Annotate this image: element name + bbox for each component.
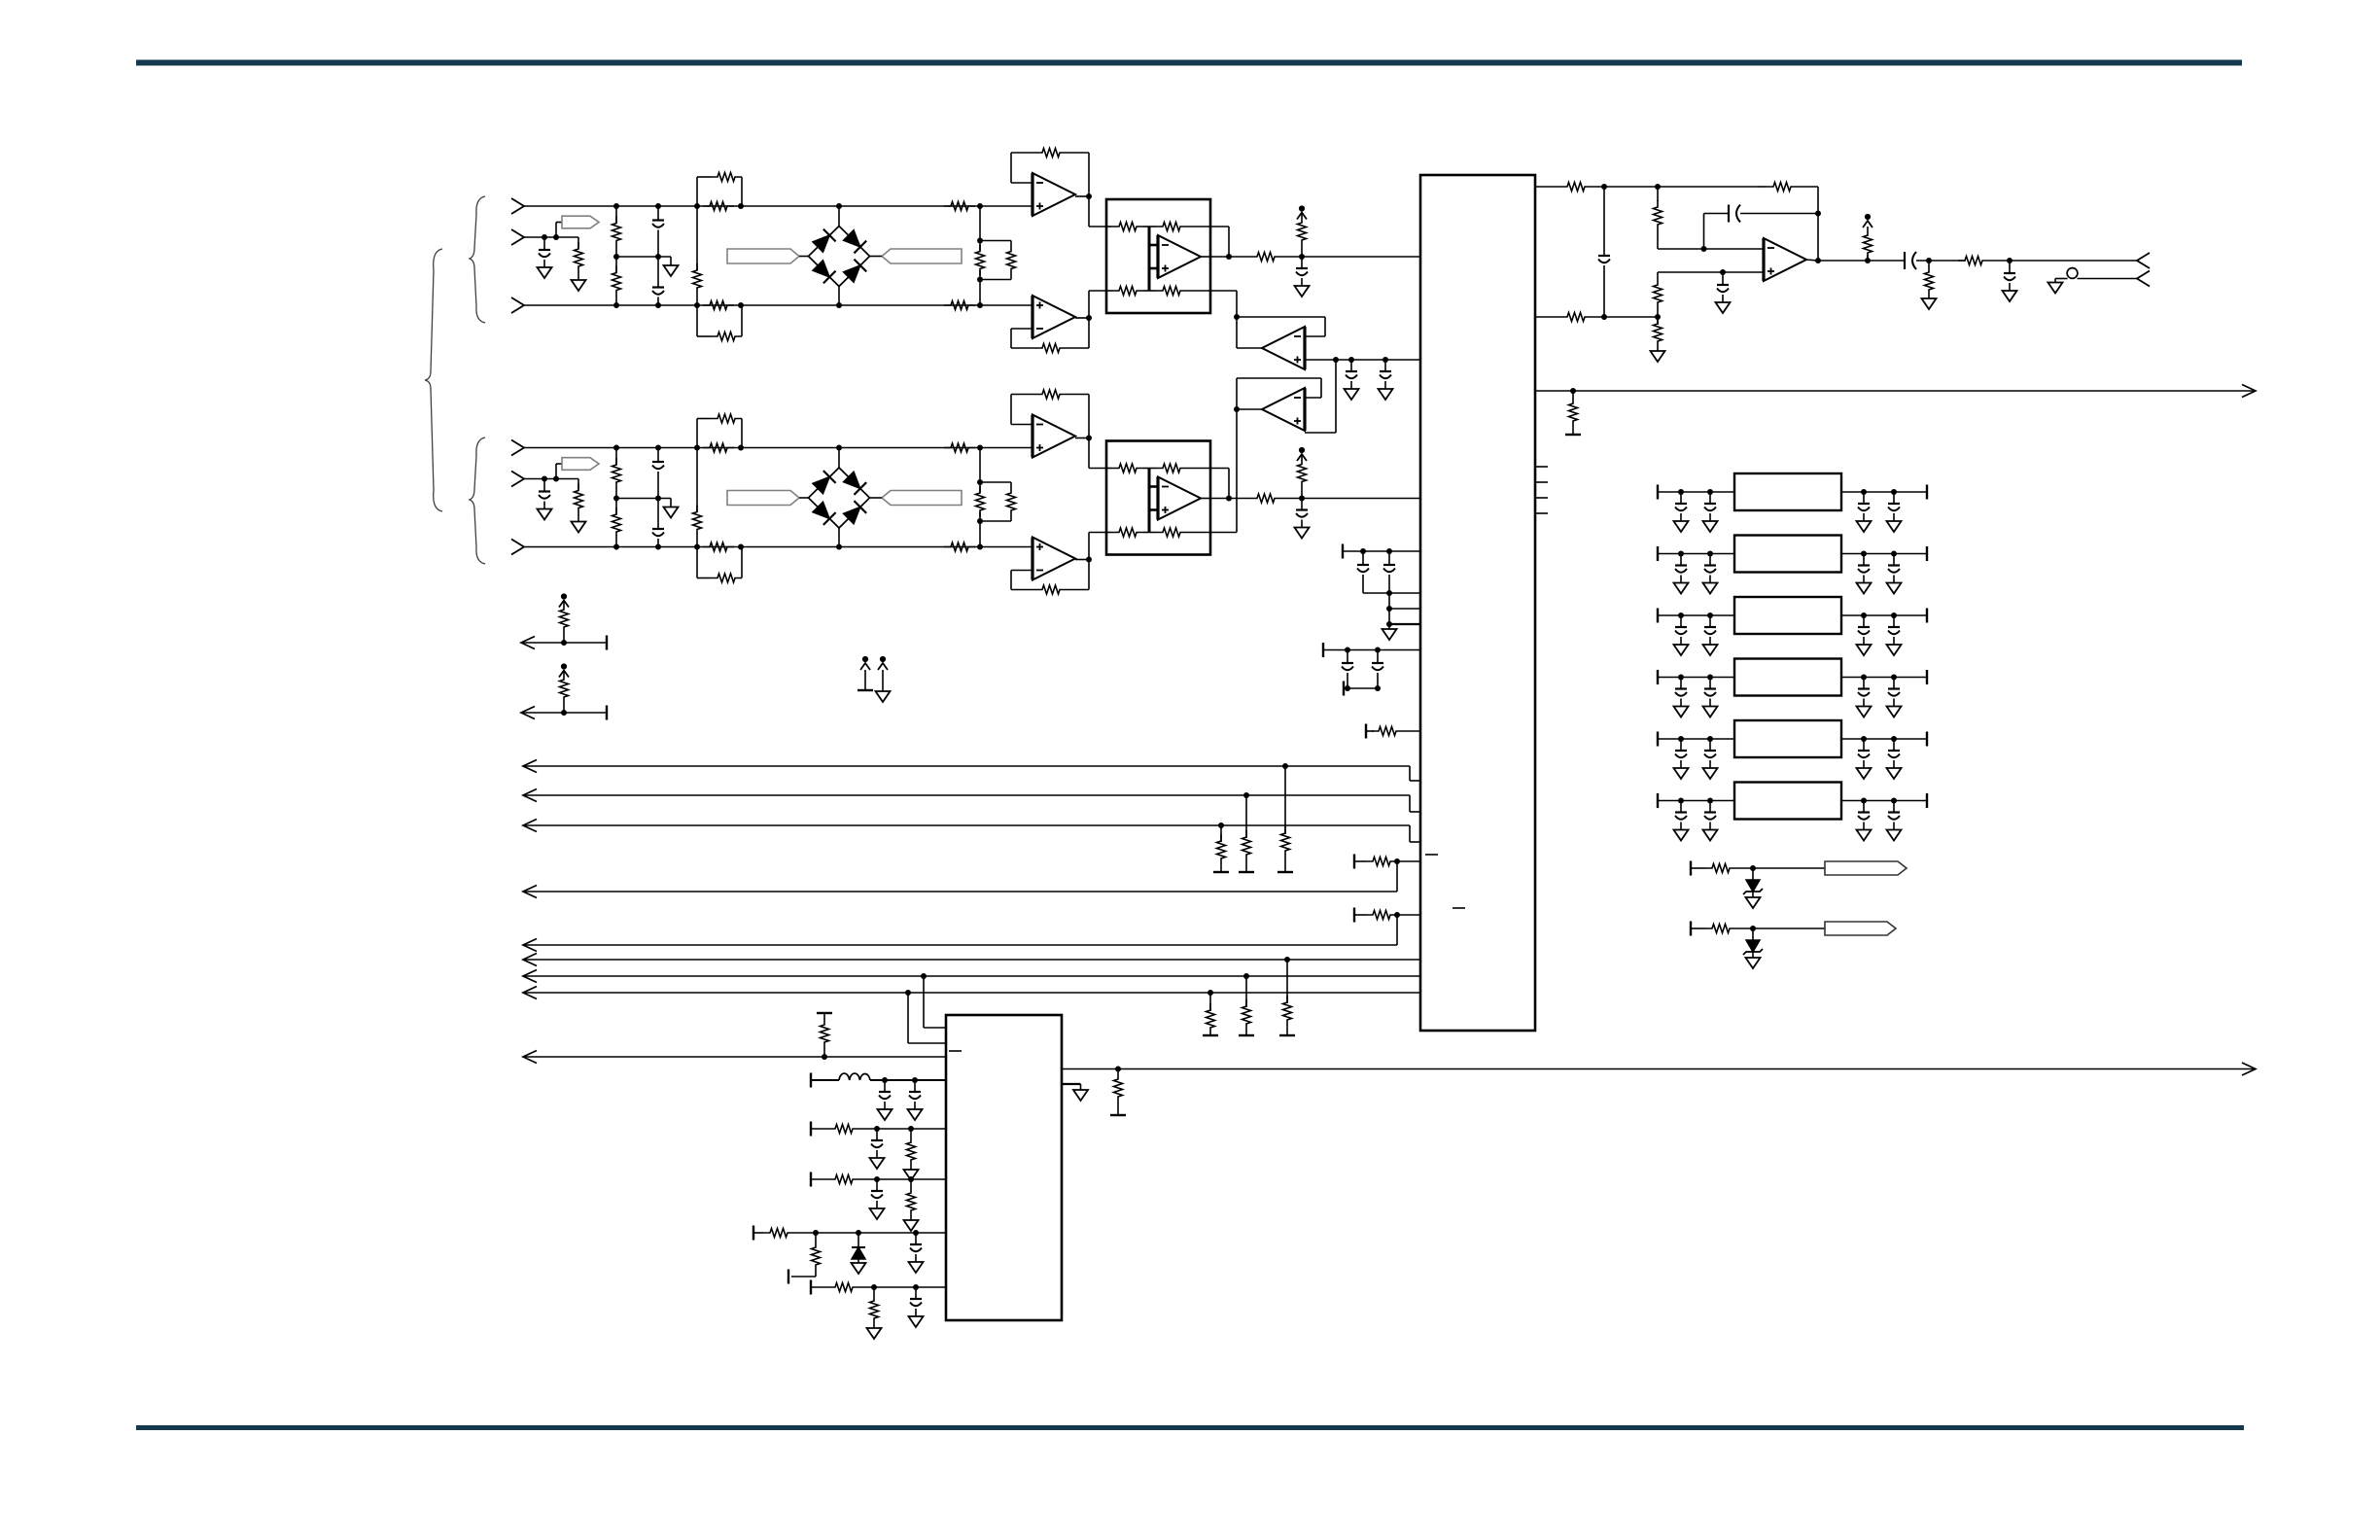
- node mid-b CH1: [553, 234, 559, 240]
- filter 2 cap in 2: [1703, 554, 1718, 594]
- difference amplifier box CH2: [1106, 441, 1210, 555]
- diff resistor R2 CH1: [1149, 223, 1210, 231]
- long wire bottom left: [523, 1051, 946, 1064]
- op-amp B feedback CH1: [1011, 318, 1089, 353]
- IC stub pin 2: [1535, 481, 1548, 483]
- diode bridge diamond CH2: [809, 468, 870, 528]
- diff output node CH1: [1210, 254, 1250, 260]
- filter 4 cap in 1: [1674, 678, 1689, 717]
- bridge diode D3 CH1: [813, 261, 836, 284]
- pull-up resistor out CH2: [1297, 447, 1307, 499]
- node in- CH1: [977, 302, 983, 308]
- wire R21 to bus: [523, 861, 1397, 898]
- filter 5 output rail: [1841, 732, 1927, 747]
- node mid-a CH2: [542, 476, 547, 482]
- wire bottom CH1: [524, 304, 1032, 306]
- filter 2 block: [1734, 536, 1841, 573]
- wire opB to diffbox CH2: [1089, 533, 1106, 560]
- bridge bottom stub CH1: [836, 287, 842, 309]
- diff resistor R4 CH1: [1149, 287, 1210, 296]
- connector pin GND CH1: [511, 229, 524, 245]
- filter 2 input rail: [1658, 546, 1734, 561]
- U3 row3 rail: [811, 1172, 946, 1187]
- bus wire arrow 3: [523, 820, 1420, 843]
- zener row B rail: [1691, 922, 1825, 936]
- wire opB to diffbox CH1: [1089, 291, 1106, 318]
- wire diffbox1 to U2A: [1210, 291, 1237, 317]
- ground midnode CH1: [664, 257, 679, 276]
- load cap C34: [2003, 261, 2017, 301]
- gain resistor loop bottom CH2: [697, 544, 744, 583]
- filter 3 cap out 2: [1887, 615, 1902, 655]
- bridge diode D2 CH2: [843, 472, 866, 495]
- wire bus7 to U3: [924, 976, 946, 1028]
- VOCM rail: [1333, 357, 1420, 363]
- gain resistor R32: [1654, 269, 1765, 317]
- node in+ CH1: [977, 203, 983, 209]
- capacitor VOCM C1: [1345, 360, 1359, 400]
- IC U4 pin marker 1: [1425, 854, 1438, 856]
- coupling cap C30: [1704, 205, 1819, 250]
- IC stub pin 1: [1535, 466, 1548, 468]
- filter 5 input rail: [1658, 732, 1734, 747]
- filter 2 cap out 1: [1857, 554, 1872, 594]
- filter 5 cap out 2: [1887, 739, 1902, 779]
- filter 4 input rail: [1658, 670, 1734, 684]
- cap row2: [870, 1129, 885, 1169]
- bias stub resistor 2: [559, 663, 569, 713]
- termination resistor loop CH2: [980, 482, 1016, 521]
- connector pin IN+ CH2: [511, 440, 524, 456]
- bridge diode D1 CH1: [813, 229, 836, 253]
- op-amp A feedback CH1: [1011, 149, 1089, 197]
- IC U3 pin marker: [949, 1050, 962, 1052]
- IC output wire bottom: [1535, 313, 1661, 322]
- filter 6 cap in 1: [1674, 801, 1689, 841]
- gain resistor inline bottom CH1: [703, 301, 734, 310]
- op-amp B feedback CH2: [1011, 560, 1089, 595]
- filter 3 cap in 1: [1674, 615, 1689, 655]
- gain resistor inline bottom CH2: [703, 542, 734, 551]
- bus wire arrow 8: [523, 987, 1420, 999]
- U3 row4 rail: [753, 1226, 946, 1241]
- cap L1b: [908, 1080, 923, 1120]
- capacitor pair top CH2: [652, 445, 664, 502]
- node U2A fb: [1234, 314, 1240, 320]
- U3 gnd pin: [1062, 1084, 1088, 1101]
- filter 5 cap in 2: [1703, 739, 1718, 779]
- U3 row2 rail: [811, 1122, 946, 1137]
- wire opA to diffbox CH1: [1089, 196, 1106, 227]
- bridge bottom stub CH2: [836, 528, 842, 550]
- wire midnode CH1: [616, 256, 671, 258]
- op-amp A CH1: [1032, 173, 1075, 216]
- output wire: [1818, 258, 1905, 263]
- series resistor bottom CH1: [944, 301, 975, 310]
- decoupling cap C11: [1383, 551, 1395, 593]
- net flag B: [1825, 922, 1896, 935]
- wire U2A output: [1237, 317, 1262, 348]
- bridge diode D4 CH2: [843, 501, 866, 524]
- termination resistor CH1: [973, 206, 987, 305]
- op-amp B CH1: [1032, 296, 1075, 338]
- bridge cap C31: [1598, 187, 1610, 317]
- op-amp U5: [1764, 238, 1806, 281]
- filter 1 cap in 1: [1674, 492, 1689, 532]
- bus wire arrow 2: [523, 789, 1420, 813]
- net flag A: [1825, 861, 1907, 875]
- wire midnode CH2: [616, 498, 671, 500]
- pull resistor bus 3: [1213, 825, 1229, 872]
- pull resistor bus 2: [1239, 795, 1254, 872]
- cap L1a: [878, 1080, 892, 1120]
- gain resistor inline top CH2: [703, 443, 734, 452]
- connector pin IN+ CH1: [511, 198, 524, 214]
- buffer op-amp U2B: [1262, 388, 1305, 431]
- termination resistor CH2: [973, 448, 987, 547]
- resistor R-drain CH2: [572, 479, 586, 533]
- op-amp U5 output node: [1805, 258, 1821, 263]
- resistor divider bottom CH1: [612, 257, 621, 308]
- node in- CH2: [977, 544, 983, 550]
- bridge diode D2 CH1: [843, 230, 866, 254]
- load resistor R35: [1922, 261, 1937, 309]
- pull resistor bus 1: [1277, 766, 1293, 872]
- net flag bridge right CH1: [870, 249, 962, 263]
- termination resistor loop CH1: [980, 241, 1016, 280]
- filter 2 output rail: [1841, 546, 1927, 561]
- filter 6 cap out 2: [1887, 801, 1902, 841]
- pull resistor bus 6: [1279, 960, 1295, 1035]
- gain resistor loop top CH2: [697, 414, 744, 451]
- capacitor pair top CH1: [652, 203, 664, 260]
- wire R22 to bus: [523, 915, 1397, 952]
- IC stub pin 4: [1535, 512, 1548, 514]
- pull-up resistor out CH1: [1297, 205, 1307, 257]
- ground bead: [2048, 279, 2063, 294]
- filter 1 cap out 2: [1887, 492, 1902, 532]
- filter 1 block: [1734, 473, 1841, 510]
- IC stub pin 3: [1535, 497, 1548, 499]
- brace input group (both channels): [425, 249, 442, 511]
- bridge top stub CH1: [836, 203, 842, 227]
- filter cap out CH2: [1295, 499, 1310, 539]
- net flag bridge left CH2: [727, 491, 809, 506]
- net flag shield CH2: [556, 458, 599, 479]
- decoupling rail 1 return: [1363, 590, 1420, 596]
- resistor row4: [788, 1233, 821, 1284]
- filter 5 cap in 1: [1674, 739, 1689, 779]
- bridge diode D4 CH1: [843, 260, 866, 283]
- buffer op-amp U2A: [1262, 327, 1305, 369]
- filter 4 cap out 1: [1857, 678, 1872, 717]
- filter cap out CH1: [1295, 257, 1310, 297]
- capacitor pair bottom CH2: [652, 499, 664, 550]
- connector pin GND CH2: [511, 472, 524, 487]
- filter 4 output rail: [1841, 670, 1927, 684]
- power flag B: [876, 656, 891, 702]
- capacitor C-in CH2: [538, 479, 552, 520]
- gain resistor inline top CH1: [703, 202, 734, 211]
- filter 6 block: [1734, 783, 1841, 820]
- capacitor C-in CH1: [538, 237, 552, 278]
- series resistor top CH2: [944, 443, 975, 452]
- resistor row5: [867, 1287, 882, 1339]
- resistor stub R21: [1354, 855, 1420, 869]
- wire opA to diffbox CH2: [1089, 438, 1106, 469]
- op-amp B output node CH2: [1075, 557, 1092, 563]
- filter 3 input rail: [1658, 609, 1734, 623]
- wire bus8 to U3: [908, 993, 946, 1043]
- series resistor out CH2: [1250, 494, 1420, 503]
- op-amp A feedback CH2: [1011, 390, 1089, 438]
- node after C33: [1916, 258, 1966, 263]
- filter 6 input rail: [1658, 793, 1734, 808]
- wire mid CH2: [524, 478, 578, 480]
- node mid-b CH2: [553, 476, 559, 482]
- resistor stub R20: [1366, 724, 1420, 739]
- filter 4 cap out 2: [1887, 678, 1902, 717]
- IC U4 pin marker 2: [1452, 907, 1465, 909]
- filter 2 cap in 1: [1674, 554, 1689, 594]
- pull resistor bus 8: [1203, 993, 1218, 1035]
- resistor R-bias CH1: [693, 203, 702, 308]
- power flag A: [857, 656, 873, 690]
- resistor divider top CH2: [612, 445, 621, 502]
- bottom border bar: [136, 1425, 2244, 1430]
- decoupling stub a: [1386, 593, 1420, 612]
- filter 2 cap out 2: [1887, 554, 1902, 594]
- diff row link CH2: [1210, 469, 1229, 499]
- capacitor VOCM C2: [1379, 360, 1393, 400]
- U3 row5 rail: [811, 1280, 946, 1295]
- wire U2A feedback loop: [1237, 317, 1325, 336]
- difference amplifier box CH1: [1106, 199, 1210, 313]
- bridge diode D3 CH2: [813, 502, 836, 525]
- op-amp B CH2: [1032, 538, 1075, 580]
- wire top CH2: [524, 447, 1032, 449]
- decoupling rail 1: [1343, 544, 1420, 559]
- bias stub arrow 1: [521, 636, 607, 650]
- wire bottom CH2: [524, 546, 1032, 548]
- wire U2B plus to VOCM rail: [1305, 360, 1336, 433]
- cap row3: [870, 1179, 885, 1219]
- series resistor R36: [1958, 257, 2137, 265]
- ground resistor R33: [1651, 317, 1665, 362]
- filter 6 output rail: [1841, 793, 1927, 808]
- wire U2B feedback loop: [1237, 378, 1321, 409]
- ground midnode CH2: [664, 499, 679, 518]
- connector pin IN- CH2: [511, 540, 524, 555]
- diff resistor R2 CH2: [1149, 464, 1210, 472]
- decoupling cap C10: [1357, 551, 1369, 591]
- zener diode D11: [1743, 928, 1763, 968]
- diff box input bus CH2: [1148, 469, 1151, 533]
- node U2B fb: [1234, 406, 1240, 412]
- filter 4 cap in 2: [1703, 678, 1718, 717]
- op-amp A output node CH1: [1075, 193, 1092, 199]
- top border bar: [136, 60, 2242, 66]
- diff resistor R1 CH1: [1106, 223, 1149, 231]
- wire top CH1: [524, 205, 1032, 207]
- op-amp B output node CH1: [1075, 315, 1092, 321]
- resistor row3: [904, 1179, 919, 1231]
- long wire out right: [1535, 385, 2256, 398]
- filter 6 cap out 1: [1857, 801, 1872, 841]
- diff output node CH2: [1210, 496, 1250, 502]
- net flag bridge left CH1: [727, 249, 809, 263]
- brace channel 1 inputs: [470, 196, 485, 323]
- gain resistor loop bottom CH1: [697, 302, 744, 341]
- diff resistor R3 CH1: [1106, 287, 1149, 296]
- filter 6 cap in 2: [1703, 801, 1718, 841]
- bus wire arrow 1: [523, 760, 1420, 782]
- zener diode D10: [1743, 868, 1763, 908]
- bus wire arrow 7: [523, 970, 1420, 983]
- decoupling stub b: [1386, 609, 1420, 627]
- cap row5: [909, 1287, 924, 1327]
- series cap C33: [1905, 252, 1916, 269]
- wire U2A plus to VOCM rail: [1305, 359, 1336, 361]
- net flag shield CH1: [556, 216, 599, 237]
- decoupling rail 2: [1323, 643, 1420, 657]
- decoupling rail 2 return: [1344, 682, 1381, 696]
- power IC U3: [946, 1015, 1062, 1320]
- IC output wire top: [1535, 183, 1758, 192]
- op-amp A CH2: [1032, 415, 1075, 458]
- brace channel 2 inputs: [470, 437, 485, 564]
- filter 3 cap out 1: [1857, 615, 1872, 655]
- diff op-amp CH1: [1149, 235, 1210, 278]
- inductor L1: [811, 1073, 946, 1088]
- resistor R41: [1110, 1069, 1126, 1116]
- ground decoupling 1: [1382, 624, 1397, 640]
- diff box input bus CH1: [1148, 227, 1151, 291]
- resistor stub R22: [1354, 908, 1420, 923]
- filter 1 cap in 2: [1703, 492, 1718, 532]
- series resistor bottom CH2: [944, 542, 975, 551]
- diff resistor R1 CH2: [1106, 464, 1149, 472]
- filter 3 output rail: [1841, 609, 1927, 623]
- bias stub resistor 1: [559, 593, 569, 643]
- op-amp A output node CH2: [1075, 436, 1092, 441]
- decoupling cap C13: [1372, 650, 1383, 689]
- filter 3 cap in 2: [1703, 615, 1718, 655]
- filter 5 cap out 1: [1857, 739, 1872, 779]
- wire U2B to diffbox2: [1210, 409, 1237, 533]
- resistor divider top CH1: [612, 203, 621, 260]
- feedback resistor R30: [1758, 183, 1821, 262]
- pull-up resistor R34: [1863, 214, 1872, 261]
- node in+ CH2: [977, 445, 983, 451]
- series resistor out CH1: [1250, 253, 1420, 262]
- node mid-a CH1: [542, 234, 547, 240]
- long wire bottom right: [1062, 1063, 2256, 1075]
- diode bridge diamond CH1: [809, 227, 870, 287]
- diff op-amp CH2: [1149, 477, 1210, 520]
- net flag bridge right CH2: [870, 491, 962, 506]
- bias stub arrow 2: [521, 706, 607, 720]
- series resistor top CH1: [944, 202, 975, 211]
- filter 3 block: [1734, 597, 1841, 634]
- filter 1 output rail: [1841, 485, 1927, 500]
- diff resistor R4 CH2: [1149, 528, 1210, 537]
- connector pin IN- CH1: [511, 297, 524, 313]
- diff resistor R3 CH2: [1106, 528, 1149, 537]
- cap row4: [909, 1233, 924, 1273]
- gain resistor R31: [1654, 187, 1765, 252]
- resistor divider bottom CH2: [612, 499, 621, 550]
- filter 1 input rail: [1658, 485, 1734, 500]
- filter 5 block: [1734, 720, 1841, 757]
- connector pin OUT A: [2137, 253, 2150, 268]
- gain resistor loop top CH1: [697, 173, 744, 210]
- capacitor pair bottom CH1: [652, 257, 664, 308]
- diff row link CH1: [1210, 227, 1229, 257]
- decoupling cap C12: [1342, 650, 1353, 689]
- pull resistor bus 7: [1239, 976, 1254, 1035]
- main IC U4: [1420, 175, 1535, 1031]
- filter 4 block: [1734, 659, 1841, 696]
- resistor R-bias CH2: [693, 445, 702, 550]
- connector pin OUT B: [2078, 271, 2151, 287]
- resistor on long wire: [1565, 391, 1581, 435]
- zener row A rail: [1691, 861, 1825, 876]
- filter cap C32: [1716, 272, 1731, 313]
- wire mid CH1: [524, 236, 578, 238]
- resistor row2: [904, 1129, 919, 1180]
- filter 1 cap out 1: [1857, 492, 1872, 532]
- wire U2B output: [1237, 408, 1262, 410]
- ferrite bead FB1: [2055, 268, 2078, 279]
- diode row4: [852, 1233, 866, 1274]
- bridge top stub CH2: [836, 445, 842, 469]
- resistor R-drain CH1: [572, 237, 586, 291]
- bridge diode D1 CH2: [813, 471, 836, 494]
- bus wire arrow 6: [523, 954, 1420, 966]
- resistor above R40: [817, 1013, 832, 1057]
